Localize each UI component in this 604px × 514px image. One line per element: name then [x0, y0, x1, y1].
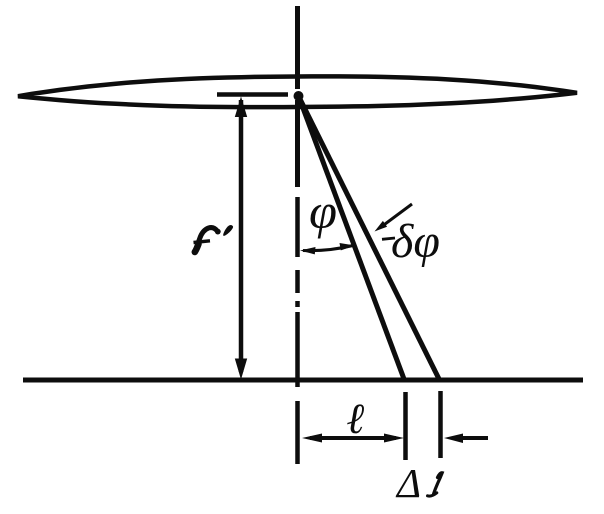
- optical axis dot: [295, 301, 300, 307]
- optical axis dash: [295, 197, 300, 257]
- l dimension line: [310, 436, 396, 440]
- l dimension right arrowhead: [384, 434, 404, 443]
- optical axis top segment: [295, 6, 300, 89]
- phi angle arc: [303, 246, 353, 251]
- optical axis dash crossing focal plane: [295, 312, 300, 387]
- svg-text:δφ: δφ: [391, 215, 440, 268]
- optical axis dash: [295, 270, 300, 293]
- delta-l arrowhead: [444, 434, 463, 444]
- delta-phi leader dash: [382, 238, 395, 239]
- svg-text:φ: φ: [309, 183, 337, 239]
- label f': [194, 225, 234, 252]
- phi arc left arrowhead: [300, 247, 316, 254]
- f' dimension line: [239, 100, 244, 372]
- f' dimension up arrowhead: [235, 97, 247, 118]
- optical axis segment below lens: [295, 100, 300, 187]
- svg-text:Δ: Δ: [395, 460, 421, 506]
- delta-phi leader arrowhead: [375, 221, 388, 232]
- f' dimension tick at lens plane: [217, 92, 288, 97]
- f' dimension down arrowhead: [235, 359, 247, 380]
- ray 2 (ray at angle phi + delta-phi): [299, 96, 440, 379]
- delta-l arrow shaft: [458, 436, 488, 440]
- l dimension left arrowhead: [302, 434, 322, 443]
- optical axis tick below focal plane: [295, 401, 300, 464]
- focal plane line: [23, 378, 583, 383]
- tick mark at ray 1 foot: [403, 392, 408, 460]
- svg-text:ℓ: ℓ: [347, 396, 365, 443]
- tick mark at ray 2 foot: [438, 391, 443, 458]
- phi arc right arrowhead: [340, 243, 356, 250]
- ray 1 (axis ray refracted at angle phi): [299, 96, 405, 379]
- lens centre node O: [294, 91, 304, 101]
- delta-phi leader arrow shaft: [381, 204, 412, 227]
- lens (thin-lens lenticular outline): [18, 76, 577, 107]
